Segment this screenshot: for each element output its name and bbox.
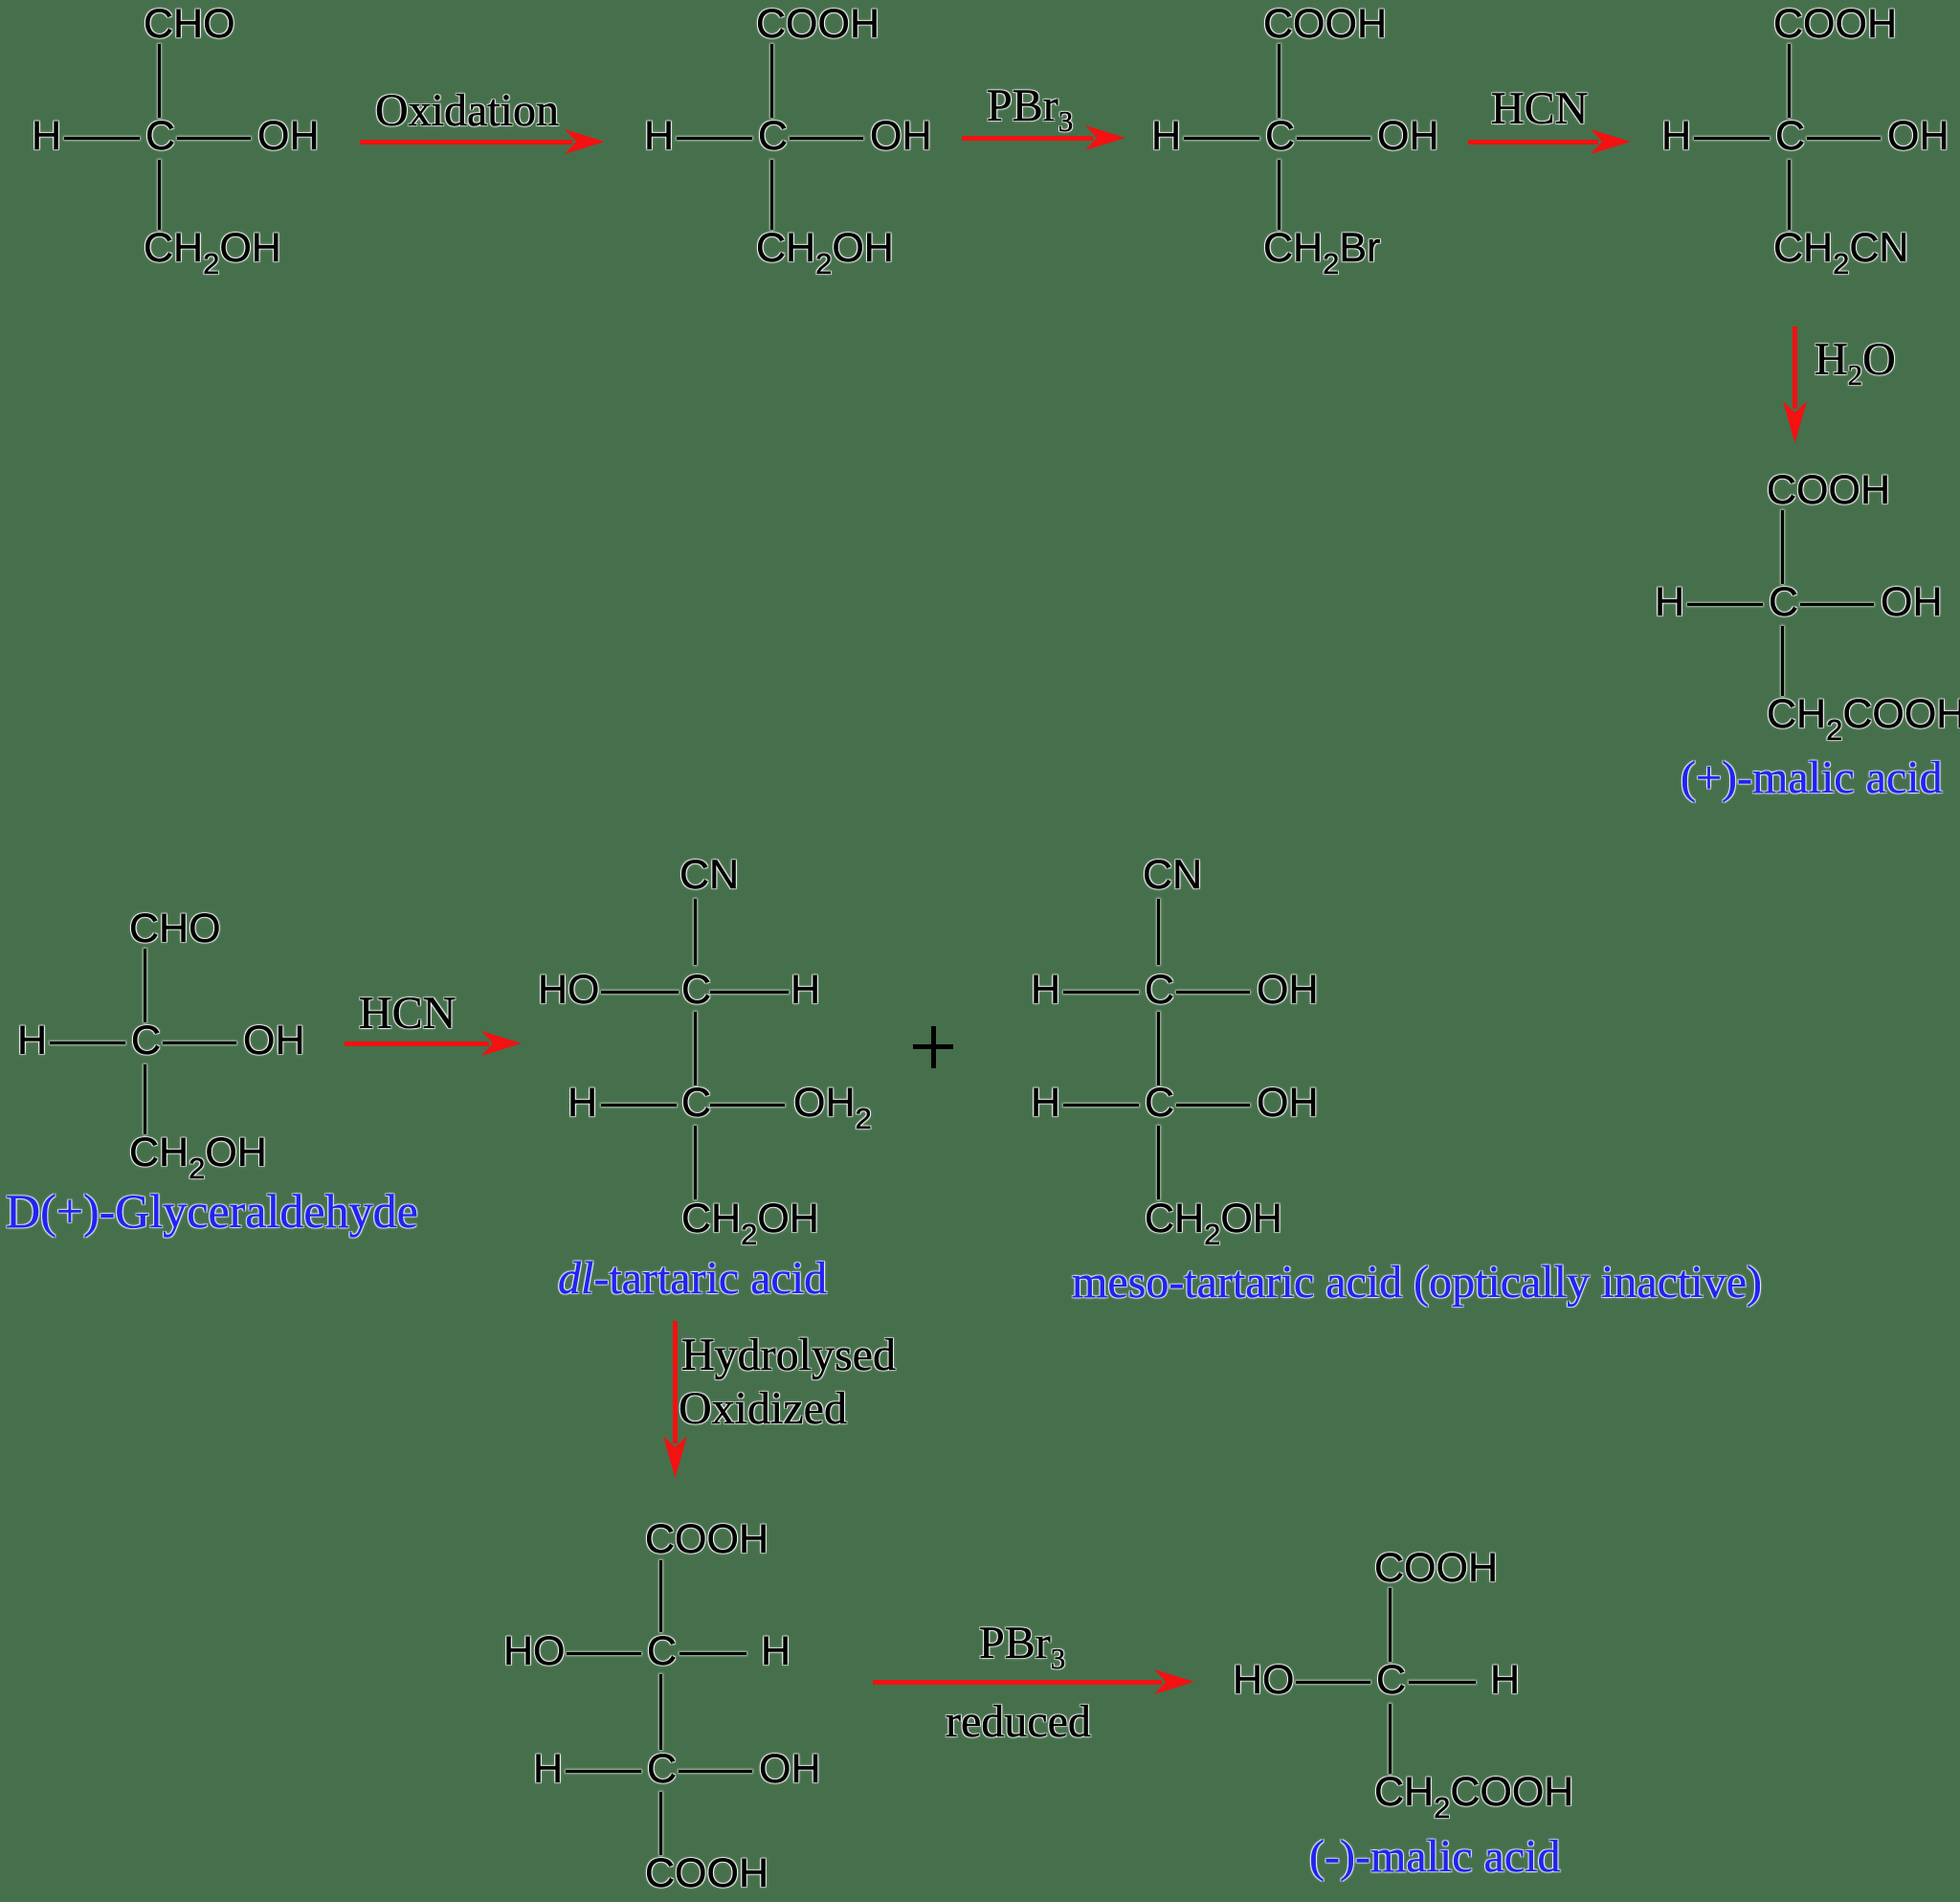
label: (-)-malic acid [1309, 1834, 1561, 1880]
arrow: Hydrolysed/Oxidized (down) [663, 1321, 687, 1478]
structure: cyano acid [1773, 4, 1897, 45]
arrow: PBr3 reduced (bottom) [873, 1669, 1194, 1694]
structure: D(+)-glyceraldehyde [129, 908, 221, 950]
arrow: Oxidation [360, 129, 605, 154]
structure: meso-tartaric acid [1143, 855, 1202, 896]
label: meso-tartaric acid (optically inactive) [1072, 1260, 1762, 1306]
arrow: PBr3 (top) [962, 125, 1125, 150]
structure: glyceraldehyde (top-left) [144, 4, 235, 45]
structure: (-)-malic acid [1374, 1548, 1498, 1589]
structure: bromo acid [1263, 4, 1387, 45]
structure: tartaric acid [645, 1519, 768, 1560]
label: D(+)-Glyceraldehyde [6, 1187, 418, 1235]
structure: glyceric acid [756, 4, 880, 45]
label: (+)-malic acid [1681, 755, 1943, 801]
structure: (+)-malic acid [1767, 470, 1890, 511]
structure: dl-tartaric acid [679, 855, 739, 896]
label: dl-tartaric acid [558, 1256, 827, 1302]
arrow: H2O (down) [1783, 326, 1807, 443]
plus sign [913, 1044, 953, 1049]
arrow: HCN (second row) [345, 1031, 522, 1056]
arrow: HCN (top) [1468, 129, 1631, 154]
